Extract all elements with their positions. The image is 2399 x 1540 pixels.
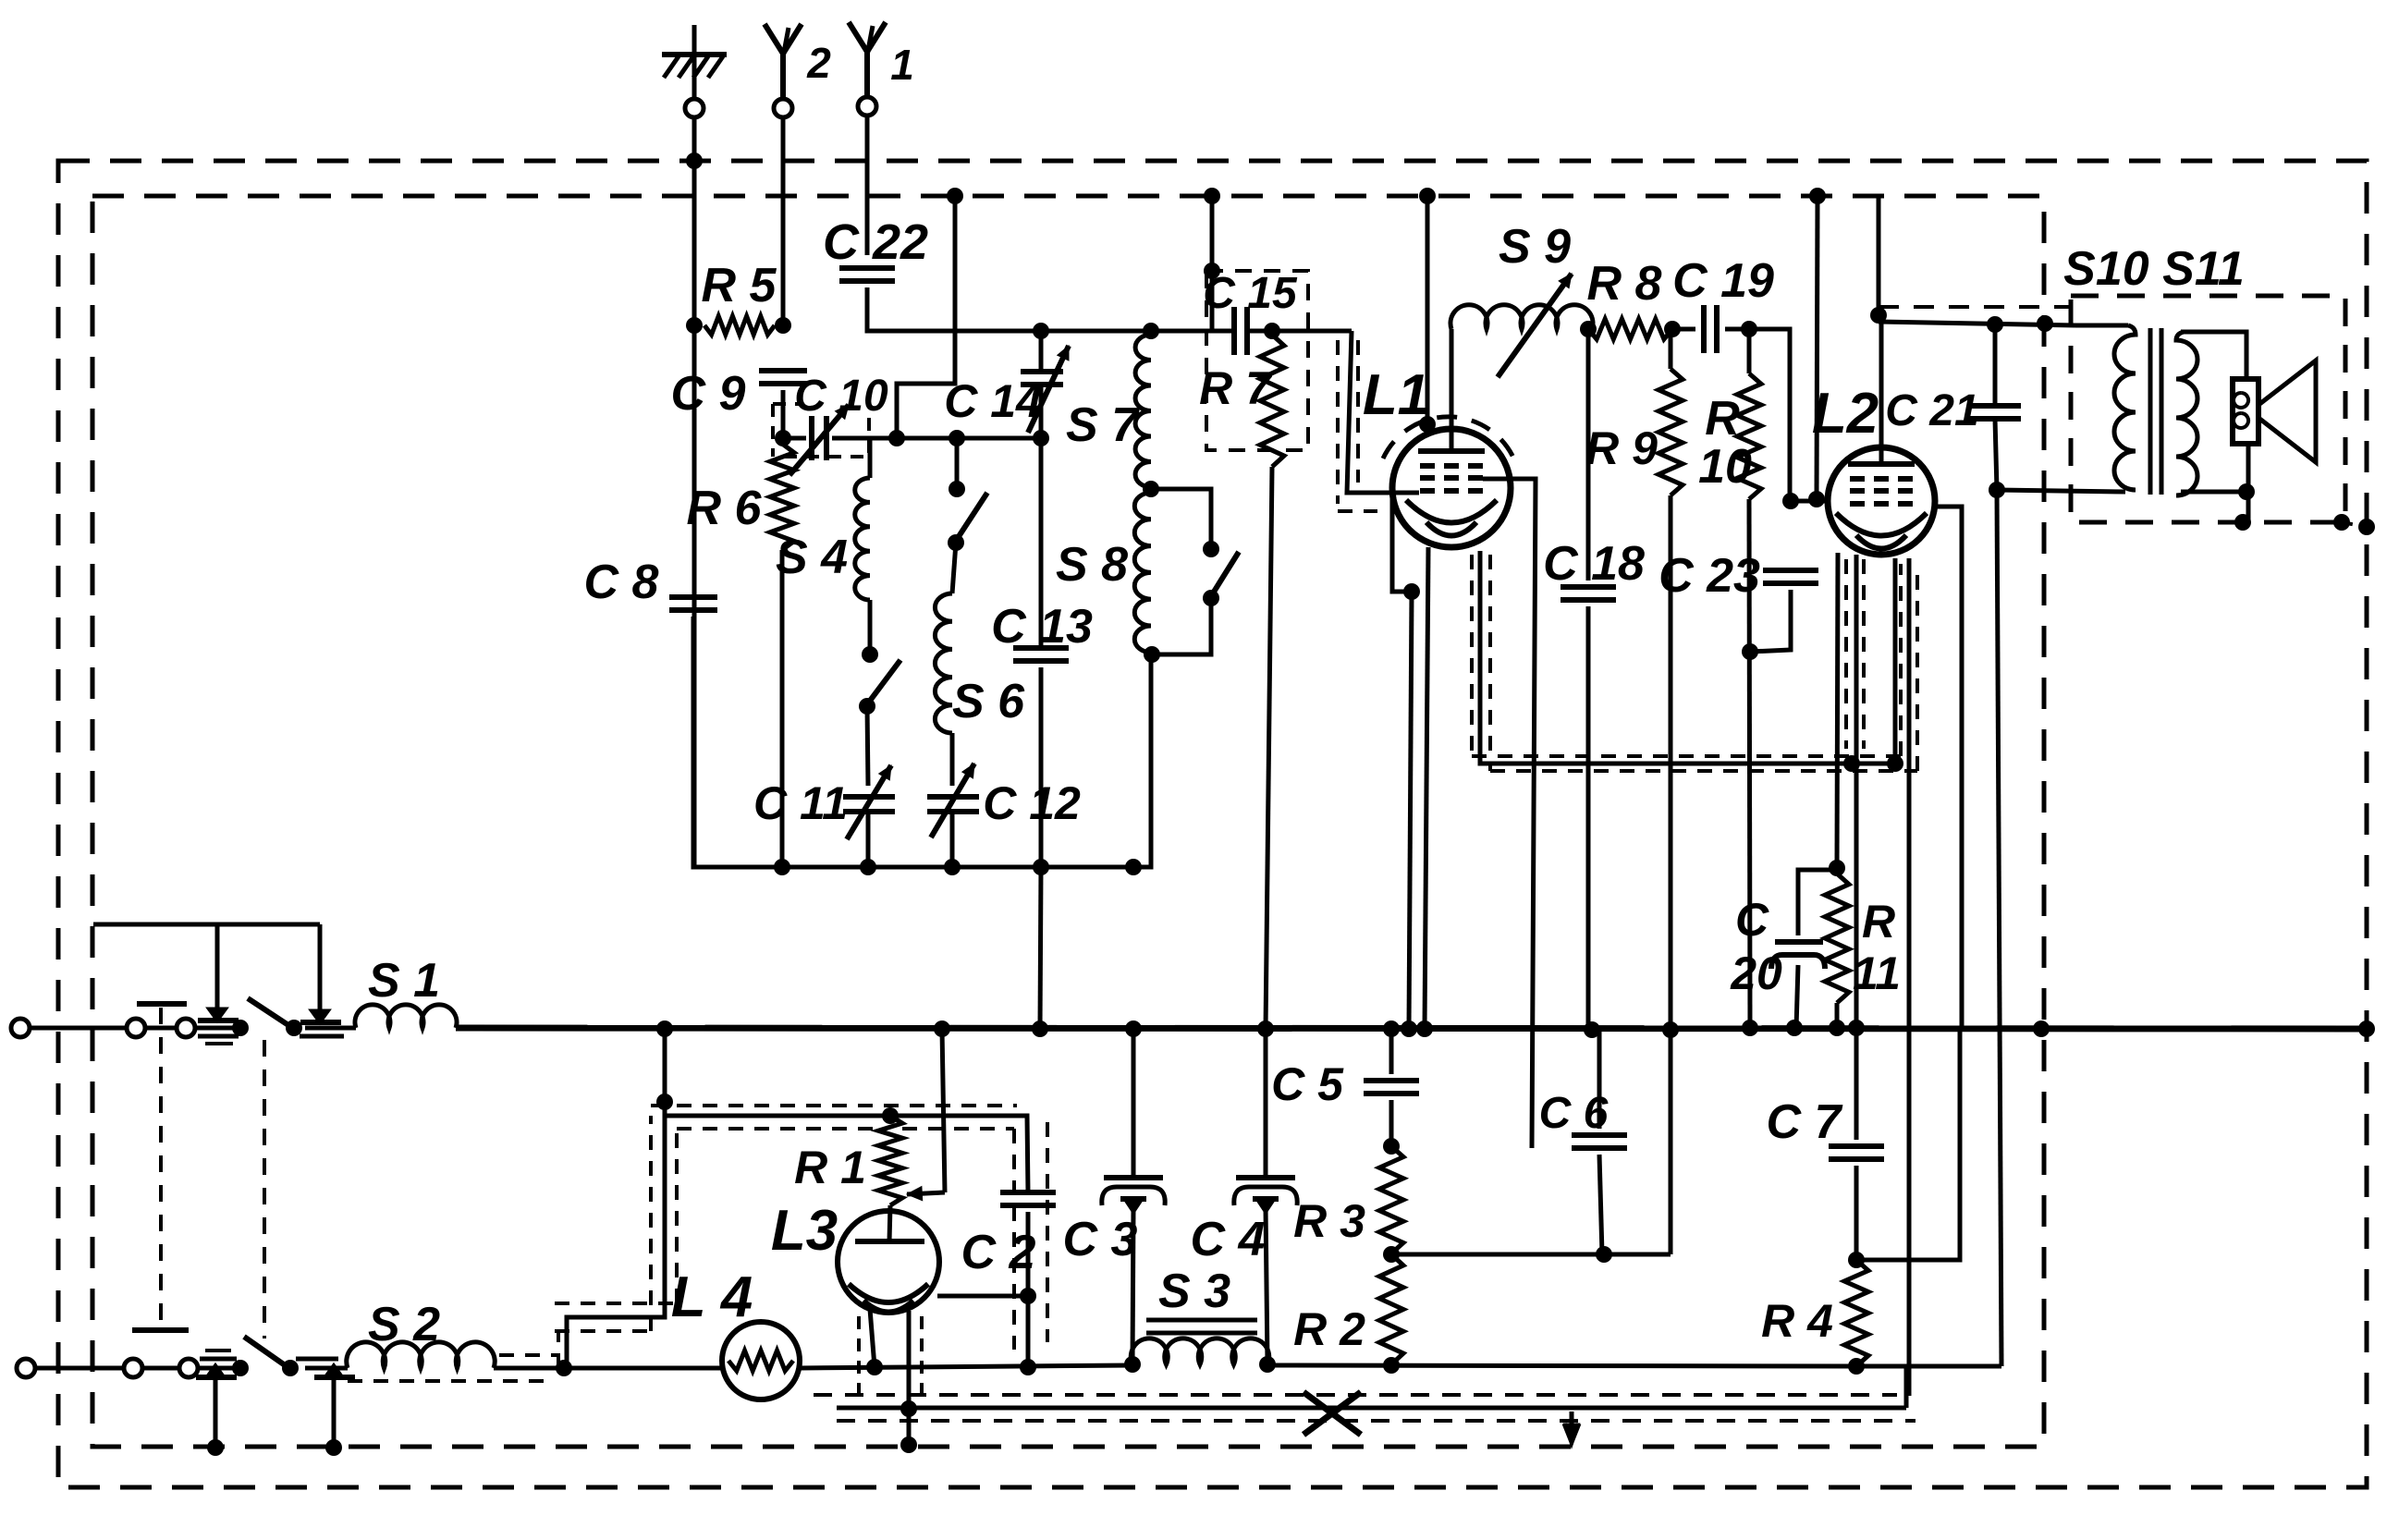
junction dot bus x1125: [1032, 1021, 1048, 1037]
junction dot R8 right: [1664, 321, 1681, 337]
transformer core: [2148, 328, 2153, 495]
junction dot bus x1893: [1742, 1020, 1758, 1036]
wire L2 plate to transformer: [1879, 322, 2075, 325]
switch S4/C11 lower contact: [859, 698, 875, 715]
capacitor C20 branch: [1798, 870, 1837, 935]
wire C21 top: [1993, 324, 1998, 406]
wire C18 top: [1586, 329, 1591, 581]
wire L1 grid exit left: [1393, 491, 1419, 495]
capacitor C15 in top rail: [1203, 269, 1298, 355]
junction dot bus x2008: [1848, 1020, 1865, 1036]
svg-text:S 1: S 1: [368, 954, 440, 1008]
junction dot L2 plate: [1870, 307, 1887, 324]
wire L1 plate to S9: [1450, 329, 1454, 451]
junction dot R2 bottom: [1383, 1357, 1400, 1374]
junction dot C21 bottom: [1989, 482, 2005, 498]
wire L1 cathode lead a: [1392, 493, 1412, 592]
junction dot R1 top: [882, 1107, 899, 1124]
heater line right end: [1856, 1364, 2001, 1369]
switch S6 blade: [956, 493, 987, 541]
svg-text:R 6: R 6: [687, 482, 763, 535]
svg-text:S 7: S 7: [1066, 398, 1140, 452]
junction dot C10 rail x1035: [949, 430, 965, 446]
junction dot plug d inner border: [325, 1439, 342, 1456]
junction dot top rail R7: [1264, 323, 1280, 339]
switch S8 lower contact: [1203, 590, 1219, 606]
wire S4 to switch: [868, 600, 873, 654]
wire C11 to lower rail: [866, 812, 871, 867]
wire R4 top link: [1856, 1028, 1960, 1260]
wire S7 tap to switch: [1151, 489, 1211, 549]
terminal battery minus outer: [17, 1359, 35, 1377]
junction dot R11 top: [1829, 860, 1845, 876]
wire jack to contact row2: [197, 1366, 240, 1371]
shield dashes of cathode run: [1472, 754, 1901, 758]
junction dot ground/outer-border: [686, 153, 703, 169]
junction dot R3 R2: [1383, 1246, 1400, 1263]
junction dot bus x1505: [1383, 1021, 1400, 1037]
wire between terminals row2: [141, 1366, 180, 1371]
svg-text:L2: L2: [1812, 382, 1879, 446]
switch S4/C11 blade: [867, 660, 900, 704]
plug stem battery top b: [318, 924, 323, 1011]
wire box corner to outer border: [2342, 522, 2367, 527]
junction dot R10 top: [1741, 321, 1757, 337]
antenna A2 terminal: [774, 99, 792, 117]
capacitor C20: [1730, 894, 1825, 999]
terminal jack top: [177, 1019, 195, 1037]
shield dashes L3 bottom: [857, 1316, 861, 1396]
junction dot L2 grid x1965: [1808, 491, 1825, 507]
resistor R7: [1199, 335, 1284, 467]
junction dot bus x1718: [1584, 1021, 1600, 1038]
wire S4 top: [868, 438, 873, 478]
wire to S2 coil: [305, 1366, 348, 1371]
wire secondary bottom to speaker: [2181, 444, 2248, 492]
wire C14 top: [1039, 331, 1044, 372]
switch S1 pivot dot: [286, 1020, 302, 1036]
wire primary bottom: [2124, 490, 2128, 495]
capacitor C6: [1539, 1089, 1627, 1148]
wire C23 to R10 column: [1750, 590, 1791, 652]
variable capacitor C10: [789, 372, 888, 475]
switch S2 pivot dot: [282, 1360, 299, 1376]
svg-text:R: R: [1705, 392, 1740, 446]
plug stem battery bottom c: [214, 1377, 218, 1448]
svg-text:C 2: C 2: [961, 1226, 1036, 1279]
wire C18 to main bus: [1586, 606, 1591, 1031]
junction dot secondary bottom: [2238, 483, 2255, 500]
svg-text:C 12: C 12: [983, 777, 1081, 829]
resistor R10: [1698, 329, 1761, 499]
junction dot S3 right: [1259, 1356, 1276, 1373]
junction dot bus x1226: [1125, 1021, 1142, 1037]
junction dot inner border x1966: [1809, 188, 1826, 204]
shield dashes under L1: [1470, 555, 1474, 756]
junction dot heater x946: [866, 1359, 883, 1375]
tube L4 barretter: [671, 1265, 800, 1399]
junction dot outer border right: [2358, 519, 2375, 535]
wire L3 filament a: [870, 1309, 875, 1367]
wire C13 to lower rail: [1039, 667, 1044, 867]
wire L2 plate up: [1879, 315, 1884, 464]
dashed shield arc around L1: [1383, 417, 1516, 464]
wire C10 rail: [783, 436, 806, 441]
resistor R8: [1587, 257, 1672, 339]
shield bundle S2 up to R1 box: [567, 1102, 665, 1368]
junction dot shield run a: [1843, 755, 1860, 772]
wire bus to R1 box: [663, 1029, 667, 1116]
wire C12 to lower rail: [950, 812, 955, 867]
svg-text:C 5: C 5: [1271, 1058, 1344, 1110]
svg-text:20: 20: [1730, 947, 1782, 999]
junction dot R1 box corner: [656, 1094, 673, 1110]
wire switch column top: [955, 438, 960, 489]
wire R8 to C19: [1672, 327, 1695, 332]
junction dot heater x1112: [1020, 1359, 1036, 1375]
wire C7 to R4: [1854, 1166, 1859, 1260]
capacitor C22: [823, 214, 928, 281]
junction dot R4 bottom: [1848, 1358, 1865, 1375]
antenna A1 terminal: [858, 97, 876, 116]
wire bus to C4 plug: [1264, 1029, 1268, 1176]
jack bottom T-bar: [132, 1327, 189, 1333]
svg-text:S 8: S 8: [1056, 538, 1128, 592]
svg-text:C 3: C 3: [1063, 1213, 1138, 1266]
wire L2 filament lead: [1854, 555, 1859, 1028]
coil S6: [935, 593, 1025, 733]
junction dot R10/C23: [1742, 643, 1758, 660]
resistor R3: [1293, 1146, 1403, 1253]
antenna A1 lead wire: [865, 116, 870, 255]
X mark: [1304, 1392, 1361, 1435]
junction dot inner border x1033: [947, 188, 963, 204]
switch S1 blade: [248, 998, 294, 1029]
junction dot top rail C14: [1033, 323, 1049, 339]
capacitor C13: [991, 600, 1093, 661]
junction dot L3 plate: [1020, 1288, 1036, 1304]
svg-text:S 3: S 3: [1158, 1265, 1230, 1318]
coil S2: [347, 1298, 495, 1368]
wire bus to C5: [1389, 1029, 1394, 1074]
capacitor C21: [1885, 386, 2021, 435]
contact bars S1 a: [198, 1034, 239, 1039]
coil S7: [1066, 335, 1151, 487]
wire C19 to C23 column corner: [1725, 329, 1790, 495]
junction dot top rail S7: [1143, 323, 1159, 339]
antenna A2 symbol: [765, 24, 831, 98]
junction dot R3 top: [1383, 1138, 1400, 1155]
svg-text:R 9: R 9: [1585, 422, 1658, 474]
junction dot C10 rail x1126: [1033, 430, 1049, 446]
switch linkage dashed: [263, 1040, 266, 1338]
wire from inner border to C15: [1210, 196, 1215, 331]
junction dot C21 top: [1987, 316, 2003, 333]
svg-text:10: 10: [1698, 440, 1752, 494]
shielded wire L1 cathode to L2: [1480, 551, 1895, 764]
junction dot C9/R6: [775, 430, 791, 446]
wire L3 filament b: [907, 1311, 912, 1367]
svg-text:C 7: C 7: [1767, 1095, 1843, 1149]
junction dot rail C11: [860, 859, 876, 875]
shielded wire top rail to L1 grid: [1347, 331, 1393, 493]
junction dot bus x1807: [1662, 1021, 1679, 1038]
junction dot box bottom: [2234, 514, 2251, 531]
variable capacitor C12: [927, 764, 1081, 837]
junction dot R5 left: [686, 317, 703, 334]
top rail wire: [1041, 329, 1233, 334]
svg-text:R 8: R 8: [1587, 257, 1662, 311]
wire C7 top: [1854, 1028, 1859, 1140]
junction dot plug c inner border: [207, 1439, 224, 1456]
ground arrow bottom: [1564, 1412, 1579, 1442]
plug foot c: [208, 1366, 223, 1376]
svg-text:S 9: S 9: [1499, 220, 1571, 274]
ground terminal: [685, 99, 704, 117]
heater line right section: [1267, 1365, 1856, 1366]
resistor R5: [702, 259, 777, 335]
junction dot C6 bottom: [1596, 1246, 1612, 1263]
wire lower rail of tuner section: [693, 617, 1151, 867]
svg-text:L 4: L 4: [671, 1265, 753, 1329]
terminal jack bottom: [179, 1359, 198, 1377]
capacitor C19 in rail: [1672, 254, 1774, 353]
junction dot bus x2208: [2033, 1021, 2050, 1037]
wire L1 cathode to main bus: [1409, 592, 1412, 1029]
junction dot R4 top: [1848, 1252, 1865, 1268]
capacitor C7: [1767, 1095, 1884, 1159]
junction diamond inner border: [900, 1436, 917, 1453]
junction dot S1 fixed contact: [232, 1020, 249, 1036]
wire speaker return to box bottom: [2246, 492, 2251, 522]
svg-text:R 4: R 4: [1761, 1295, 1833, 1347]
wire L1 screen exit right: [1483, 479, 1536, 1148]
junction dot bus x1524: [1401, 1021, 1417, 1037]
switch S8 upper contact: [1203, 541, 1219, 557]
resistor R4: [1761, 1260, 1868, 1366]
svg-text:C 8: C 8: [584, 556, 659, 609]
wire C6 bottom: [1599, 1155, 1602, 1254]
wire L2 third lead: [1907, 558, 1912, 1396]
wire C2 to heater line: [1026, 1212, 1031, 1367]
wire A2 column C9 to C10 rail: [781, 390, 786, 438]
wire C21 junction to transformer primary bottom: [1997, 490, 2125, 492]
svg-text:C: C: [1735, 894, 1769, 946]
wire C6 top: [1597, 1031, 1602, 1129]
dashed wire transformer box to L2 plate: [1879, 305, 2071, 309]
junction dot bus x1987: [1829, 1020, 1845, 1036]
wire L2 cathode to R11: [1837, 553, 1838, 868]
junction dot L1 top: [1419, 416, 1436, 433]
junction dot bus x1941: [1786, 1020, 1803, 1036]
antenna A2 lead wire: [781, 118, 786, 319]
speaker: [2233, 379, 2258, 444]
svg-text:L1: L1: [1363, 363, 1429, 427]
wire switch to C11: [867, 706, 868, 786]
switch S4/C11 upper contact: [862, 646, 878, 663]
svg-text:S 2: S 2: [368, 1298, 440, 1351]
variable capacitor C11: [753, 765, 895, 839]
resistor R1 potentiometer: [794, 1116, 902, 1205]
contact bars S1 b: [300, 1034, 344, 1039]
plug stem battery top a: [215, 924, 220, 1009]
resistor R9: [1585, 329, 1683, 495]
wiper arrow of R1: [907, 1029, 945, 1201]
wire R10 below: [1749, 499, 1750, 1028]
main bus wire: [456, 1028, 2367, 1029]
switch S6 upper contact: [949, 481, 965, 497]
junction diamond shield: [900, 1400, 917, 1417]
svg-text:R 7: R 7: [1199, 362, 1273, 414]
antenna A1 symbol: [849, 22, 914, 96]
svg-text:L3: L3: [771, 1199, 838, 1263]
junction dot box bottom right: [2333, 514, 2350, 531]
switch S2 blade: [244, 1337, 290, 1369]
junction dot S7/S8 tap: [1143, 481, 1159, 497]
switch S6 lower contact: [948, 534, 964, 551]
svg-text:C 14: C 14: [944, 375, 1042, 427]
wire L1 top to inner border: [1426, 196, 1430, 425]
dashed box around R1 rail: [651, 1104, 1017, 1107]
wire terminal to border: [30, 1026, 128, 1031]
tube L3: [771, 1199, 939, 1313]
coil S3: [1131, 1265, 1268, 1364]
plug foot a: [210, 1009, 225, 1020]
variable capacitor C14: [944, 346, 1069, 433]
terminal battery plus outer: [11, 1019, 30, 1037]
junction dot bus x1541: [1416, 1021, 1433, 1037]
svg-text:S 4: S 4: [776, 531, 848, 584]
junction dot C15 box corner: [1204, 263, 1220, 279]
switch S8 blade: [1211, 552, 1239, 596]
svg-text:C 22: C 22: [823, 214, 928, 270]
wire S6 to C12: [950, 733, 955, 786]
shield dashes of L1 grid line: [1336, 340, 1340, 504]
wire to S1 coil: [305, 1026, 356, 1031]
junction dot rail R6: [774, 859, 790, 875]
wire R7 to main bus: [1266, 467, 1272, 1029]
wire S8 switch to S8 bottom: [1152, 598, 1211, 654]
wire switch to S6: [952, 543, 956, 593]
coil S8: [1056, 493, 1151, 653]
dashed box S10 S11: [2071, 296, 2345, 522]
plug C3: [1063, 1178, 1166, 1266]
wire C13 column to main bus: [1040, 867, 1041, 1029]
bottom shielded run: [837, 1406, 1906, 1411]
junction dot border crossing x2212: [2037, 315, 2053, 332]
junction dot bus x1369: [1257, 1021, 1274, 1037]
shield dashes S2 run: [499, 1353, 558, 1357]
wire L2 grid exit right: [1933, 507, 1962, 1028]
junction dot L1 cathode: [1403, 583, 1420, 600]
wire R1 top rail: [665, 1116, 1028, 1192]
resistor R11: [1825, 874, 1901, 1003]
junction dot L2 grid tee: [1782, 493, 1799, 509]
wire R1 to L3 grid: [889, 1205, 890, 1241]
svg-text:R 5: R 5: [702, 259, 777, 312]
junction dot S8 bottom: [1144, 646, 1160, 663]
resistor R2: [1293, 1254, 1403, 1364]
wire inner border to L2 grid: [1817, 196, 1818, 499]
wire L2 grid left: [1791, 499, 1830, 504]
junction dot rail C12: [944, 859, 961, 875]
svg-text:S 6: S 6: [952, 675, 1025, 728]
svg-text:2: 2: [806, 39, 831, 87]
junction dot S2 fixed contact: [232, 1360, 249, 1376]
terminal battery minus inner: [124, 1359, 142, 1377]
jack T-bar top row: [137, 1001, 187, 1007]
capacitor C2: [961, 1192, 1056, 1279]
wire R9 below: [1669, 495, 1673, 1254]
ground lead wire: [692, 118, 697, 867]
wire C14 to C13: [1039, 385, 1044, 647]
plug C4: [1191, 1178, 1298, 1266]
wire secondary top to speaker: [2181, 332, 2246, 381]
wire between terminals: [144, 1026, 177, 1031]
wire terminal to border row2: [35, 1366, 125, 1371]
ganged linkage dashed top: [159, 1008, 163, 1325]
inner dashed shield border: [92, 196, 2044, 1447]
transformer secondary coil: [2184, 330, 2246, 335]
coil S9 variable: [1450, 220, 1593, 451]
ground symbol: [662, 25, 727, 98]
junction dot bus right end: [2358, 1021, 2375, 1037]
svg-text:C 11: C 11: [753, 777, 848, 829]
wire gamma link from inner border to C10 rail: [897, 196, 955, 438]
wire R11 to main bus: [1835, 1003, 1840, 1028]
wire C21 bottom: [1995, 419, 1997, 490]
terminal battery plus inner: [127, 1019, 145, 1037]
heater wire L4 to S3: [800, 1365, 1132, 1368]
tube L3 grid bar: [855, 1239, 924, 1244]
tube L1: [1363, 363, 1511, 547]
capacitor C8: [584, 556, 717, 610]
capacitor C18: [1543, 537, 1645, 600]
ground drop from heater: [907, 1367, 912, 1445]
wire L2 plate to inner border: [1877, 198, 1881, 315]
junction dot inner border x1311: [1204, 188, 1220, 204]
svg-text:R 2: R 2: [1293, 1303, 1365, 1355]
capacitor C9: [671, 367, 807, 421]
capacitor C5: [1271, 1058, 1419, 1110]
svg-text:C 4: C 4: [1191, 1213, 1266, 1266]
coil S4: [776, 478, 870, 600]
plug foot b: [312, 1011, 327, 1021]
wire C4 plug to S3: [1266, 1207, 1267, 1363]
wire R6 to lower rail: [780, 550, 785, 867]
junction dot inner border x1544: [1419, 188, 1436, 204]
svg-text:S10 S11: S10 S11: [2063, 242, 2245, 296]
wire C3 plug to S3: [1132, 1207, 1133, 1363]
shield dashes under L2: [1844, 559, 1848, 749]
resistor R6: [687, 444, 794, 550]
coil S1: [355, 954, 457, 1028]
contact bars S2 a: [200, 1357, 237, 1362]
wire C22 to top rail: [867, 287, 1041, 331]
wire R3R2 junction to C6 R9: [1391, 1253, 1671, 1257]
shielded heater wire S2 to L4: [494, 1366, 722, 1371]
capacitor C23: [1658, 549, 1818, 603]
junction dot shield run b: [1887, 755, 1903, 772]
wire L1 filament to main bus: [1425, 547, 1428, 1029]
junction dot S9 right: [1580, 321, 1597, 337]
wire jack to contact: [194, 1026, 240, 1031]
plug foot d: [326, 1366, 341, 1376]
svg-text:R 1: R 1: [794, 1142, 866, 1193]
svg-text:C 9: C 9: [671, 367, 746, 421]
dashed box around C15 R7: [1206, 271, 1308, 450]
svg-text:C 10: C 10: [794, 372, 888, 421]
